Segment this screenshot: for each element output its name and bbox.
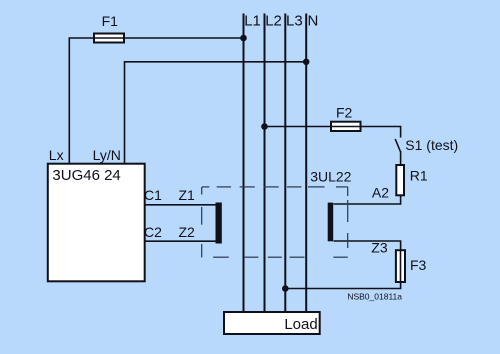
svg-text:F3: F3 bbox=[410, 257, 427, 273]
svg-text:Load: Load bbox=[284, 316, 317, 333]
svg-text:Z3: Z3 bbox=[371, 240, 388, 256]
svg-text:F2: F2 bbox=[336, 105, 353, 121]
svg-text:Z2: Z2 bbox=[179, 224, 196, 240]
svg-text:Z1: Z1 bbox=[179, 187, 196, 203]
svg-text:C2: C2 bbox=[144, 224, 162, 240]
svg-text:L3: L3 bbox=[286, 13, 303, 30]
svg-text:L2: L2 bbox=[265, 13, 282, 30]
svg-text:S1 (test): S1 (test) bbox=[405, 137, 458, 153]
svg-text:A2: A2 bbox=[372, 184, 389, 200]
svg-text:NSB0_01811a: NSB0_01811a bbox=[347, 292, 402, 302]
svg-text:3UG46 24: 3UG46 24 bbox=[52, 167, 120, 184]
svg-text:F1: F1 bbox=[102, 13, 119, 29]
svg-text:3UL22: 3UL22 bbox=[310, 168, 351, 184]
svg-text:Lx: Lx bbox=[49, 147, 64, 163]
svg-text:L1: L1 bbox=[244, 13, 261, 30]
svg-text:C1: C1 bbox=[144, 187, 162, 203]
svg-text:R1: R1 bbox=[410, 168, 428, 184]
svg-text:Ly/N: Ly/N bbox=[93, 147, 121, 163]
svg-text:N: N bbox=[308, 13, 319, 30]
